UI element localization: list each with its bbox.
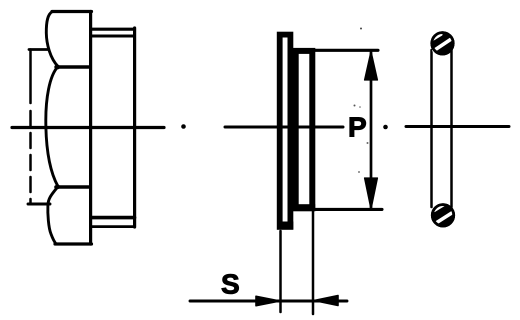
O-ring right edge (450, 50, 453, 207)
junction blob upper Y (55, 65, 60, 70)
O-ring section circle bottom (hatched) (432, 205, 453, 226)
thread root line top-lower (92, 35, 135, 38)
left facet left edge (solid upper part) (29, 50, 32, 104)
left facet left edge (dashed lower part) (29, 111, 32, 204)
dimension line P (370, 52, 373, 208)
centerline dot between left and centre figures (181, 124, 186, 129)
body top line (315, 49, 378, 52)
hex middle facet edge (bulged) (46, 67, 58, 187)
body bottom line (315, 208, 382, 211)
profile flange rectangle (tall) (280, 35, 291, 227)
svg-text:S: S (221, 269, 240, 300)
arrowhead S left (256, 296, 280, 305)
left facet top edge (29, 48, 48, 51)
extension line S left (279, 231, 282, 312)
left facet bottom edge (28, 203, 50, 206)
thread root line bottom-upper (92, 216, 135, 220)
arrowhead P top (365, 51, 378, 80)
flange bottom cap (thicker) (277, 222, 293, 230)
body rectangle bottom cap (thicker) (293, 204, 315, 211)
O-ring section circle top (hatched) (431, 33, 453, 54)
centerline dot between centre and right figures (383, 125, 388, 130)
hex facet line upper (56, 65, 89, 68)
hex head top-left chamfer curve (46, 12, 58, 67)
arrowhead P bottom (365, 178, 378, 210)
arrowhead S right (314, 296, 338, 306)
hex head bottom flat (55, 242, 92, 245)
centerline right (through O-ring) (406, 125, 509, 128)
hex head right edge (89, 12, 92, 245)
extension line S right (312, 211, 315, 314)
thread crest line top-upper (92, 28, 135, 31)
svg-text:P: P (348, 112, 367, 143)
O-ring left edge (430, 50, 433, 207)
centerline left (through hex plug) (12, 126, 164, 129)
profile body rectangle (short) (296, 51, 313, 208)
centerline centre (through plug profile) (225, 126, 343, 129)
scan speckles near P dimension line (354, 105, 356, 107)
hex facet line lower (56, 185, 89, 189)
thread crest line bottom-lower (92, 225, 135, 228)
plug end face (133, 28, 136, 227)
junction blob lower Y (55, 184, 60, 189)
hex head top flat (52, 10, 92, 13)
dimension line S (190, 300, 347, 303)
hex head bottom-left chamfer curve (48, 187, 58, 244)
